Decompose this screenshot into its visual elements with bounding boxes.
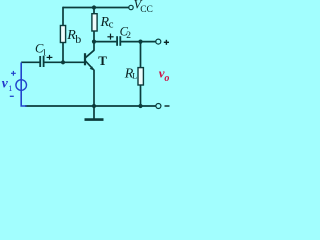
node: top rail junction <box>92 5 96 9</box>
svg-text:o: o <box>164 73 169 84</box>
terminal: output plus circle <box>156 39 161 44</box>
base bar <box>84 53 86 65</box>
node: collector/output junction <box>92 40 96 44</box>
svg-text:1: 1 <box>8 83 12 93</box>
wire: output wire left of C2 <box>94 41 116 43</box>
node: RL top junction <box>138 40 142 44</box>
source v1 lead (blue) <box>21 63 26 107</box>
node: emitter/ground junction <box>92 104 96 108</box>
node: base junction <box>61 60 65 64</box>
svg-text:b: b <box>75 32 81 46</box>
capacitor C1 <box>40 56 43 67</box>
collector diagonal <box>85 50 94 58</box>
capacitor C2 <box>117 36 120 46</box>
label C1 plus <box>47 55 53 60</box>
label v1 minus <box>10 95 14 97</box>
wire: Rb top lead <box>62 7 64 26</box>
wire: collector lead <box>93 31 95 51</box>
svg-text:CC: CC <box>140 5 153 15</box>
resistor Rb <box>60 26 65 43</box>
label output plus <box>164 40 169 45</box>
label output minus <box>165 105 170 107</box>
wire: RL top lead <box>140 42 142 68</box>
terminal: output minus circle <box>156 104 161 109</box>
wire: Rb bottom lead <box>62 43 64 64</box>
svg-text:c: c <box>109 19 114 31</box>
wire: bottom rail <box>25 105 156 107</box>
node: RL bottom junction <box>138 104 142 108</box>
wire: Rc top lead <box>93 8 95 14</box>
wire: base wire <box>44 61 84 63</box>
ground <box>85 106 104 120</box>
svg-text:2: 2 <box>126 31 131 41</box>
wire: emitter lead <box>93 70 95 107</box>
wire: output wire right of C2 <box>121 41 156 43</box>
resistor Rc <box>92 14 97 31</box>
wire: top rail <box>63 7 129 9</box>
svg-text:L: L <box>132 71 137 81</box>
resistor RL <box>138 68 143 85</box>
wire: RL bottom lead <box>140 85 142 106</box>
label C2 plus <box>107 34 113 40</box>
terminal VCC <box>129 5 133 9</box>
emitter arrowhead <box>90 66 95 70</box>
svg-text:T: T <box>98 53 107 68</box>
wire: input wire to C1 <box>21 61 39 63</box>
source v1 circle <box>16 80 27 91</box>
transistor T <box>85 50 94 69</box>
label v1 plus <box>11 71 16 76</box>
emitter diagonal <box>85 61 93 70</box>
svg-text:1: 1 <box>42 48 47 58</box>
